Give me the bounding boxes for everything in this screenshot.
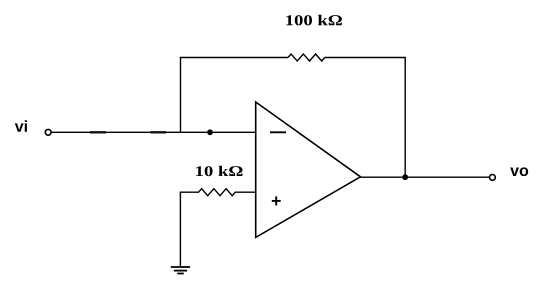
op-amp U1 triangle (256, 102, 361, 237)
resistor R1 10 kOhm with leads (180, 189, 256, 196)
op-amp inverting input minus sign (270, 131, 286, 133)
terminal vo (open circle) (490, 175, 496, 181)
wire to ground (179, 192, 181, 268)
terminal vi (open circle) (45, 129, 51, 135)
wire feedback left vertical (180, 58, 182, 134)
wire feedback top-left segment (180, 57, 288, 59)
node junction on input wire (207, 129, 213, 135)
resistor R2 100 kOhm (288, 54, 325, 61)
wire feedback right vertical (404, 58, 406, 178)
op-amp non-inverting input plus sign (272, 200, 281, 202)
wire feedback top-right segment (325, 57, 406, 59)
wire vi to inverting input (51, 131, 255, 133)
wire overlap segment 2 (151, 131, 167, 133)
wire output (361, 176, 490, 178)
label vi (15, 120, 27, 132)
wire overlap segment 1 (90, 131, 106, 133)
label 100 kOhm (286, 15, 342, 26)
node junction on output wire (402, 174, 408, 180)
label vo (510, 167, 528, 176)
ground symbol (171, 266, 190, 268)
label 10 kOhm (196, 166, 242, 177)
